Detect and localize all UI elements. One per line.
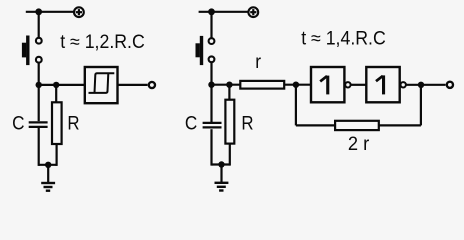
- wire from top junction down to button: [38, 12, 40, 38]
- wire U1 output: [118, 84, 148, 86]
- svg-text:R: R: [241, 114, 253, 135]
- gate U2 box: [311, 67, 344, 102]
- wire U3 output: [406, 84, 446, 86]
- wire resistor R to bottom rail: [55, 144, 57, 166]
- wire capacitor to bottom rail: [38, 128, 40, 166]
- wire feedback down from node A: [295, 85, 297, 126]
- pushbutton S1: [22, 36, 42, 66]
- wire top supply stub right: [199, 11, 249, 13]
- wire rail right circuit to resistor r: [212, 84, 241, 86]
- capacitor C right: [203, 123, 222, 128]
- wire from button to rail right: [210, 63, 212, 85]
- svg-text:R: R: [67, 114, 79, 135]
- wire bottom rail right: [212, 163, 230, 165]
- pushbutton S2: [196, 36, 215, 65]
- wire rail to capacitor C: [38, 85, 40, 121]
- svg-text:2 r: 2 r: [348, 134, 370, 155]
- svg-text:r: r: [255, 52, 261, 73]
- wire feedback horizontal left: [296, 124, 335, 126]
- svg-text:t ≈ 1,4.R.C: t ≈ 1,4.R.C: [301, 28, 386, 49]
- svg-text:C: C: [12, 114, 24, 135]
- resistor R left: [52, 102, 62, 144]
- node top-left junction: [35, 8, 42, 15]
- node rail-button junction right: [208, 82, 214, 88]
- node output junction right: [418, 82, 424, 88]
- wire rail to capacitor C right: [210, 85, 212, 123]
- label 1 in U3: [376, 75, 385, 94]
- node rail-button junction: [36, 82, 42, 88]
- inverter bubble U3: [401, 82, 406, 87]
- wire resistor r to gate 1: [284, 84, 311, 86]
- wire rail junction to resistor R right: [228, 85, 230, 100]
- wire feedback up to output: [420, 85, 422, 126]
- hysteresis symbol inside U1: [89, 73, 115, 93]
- wire from top junction down to button right: [210, 12, 212, 38]
- svg-text:C: C: [185, 114, 197, 135]
- op-amp U1 schmitt-trigger box: [85, 67, 118, 103]
- wire top supply stub left: [26, 11, 74, 13]
- inverter bubble U2: [345, 82, 350, 87]
- node A feedback tap: [293, 82, 299, 88]
- node bottom junction right: [218, 161, 224, 167]
- terminal output right circuit: [447, 82, 453, 88]
- node top-right junction: [208, 8, 215, 15]
- svg-text:t ≈ 1,2.R.C: t ≈ 1,2.R.C: [60, 32, 145, 53]
- resistor r: [240, 81, 284, 89]
- terminal output left circuit: [149, 82, 155, 88]
- wire bottom rail left: [39, 164, 57, 166]
- node rail-R junction right: [226, 82, 232, 88]
- resistor R right: [225, 100, 234, 144]
- label 1 in U2: [320, 76, 329, 95]
- wire resistor R to bottom rail right: [229, 144, 231, 166]
- wire U2 to U3: [351, 84, 367, 86]
- wire rail junction to resistor R: [55, 85, 57, 102]
- ground left: [41, 165, 55, 191]
- wire from button to rail: [38, 63, 40, 85]
- node rail-R junction: [53, 82, 59, 88]
- capacitor C left: [29, 122, 48, 127]
- wire rail left circuit: [39, 84, 85, 86]
- resistor 2r: [335, 121, 379, 130]
- gate U3 box: [366, 67, 399, 102]
- ground right: [215, 165, 229, 191]
- terminal +V right: [248, 7, 258, 17]
- wire feedback horizontal right: [379, 124, 421, 126]
- terminal +V left: [74, 7, 84, 17]
- node bottom junction left: [45, 162, 51, 168]
- wire capacitor to bottom rail right: [210, 129, 212, 165]
